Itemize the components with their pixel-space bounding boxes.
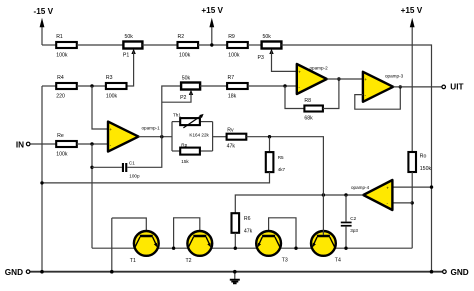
resistor R6 [232,213,253,248]
svg-text:100k: 100k [56,152,68,158]
capacitor C1 [92,137,162,179]
potentiometer P2 [180,76,200,102]
svg-text:Rp: Rp [181,142,187,147]
wire output to UIT [393,86,441,88]
wire [142,44,177,46]
wire [200,85,227,87]
svg-text:-15 V: -15 V [34,7,54,16]
svg-text:T1: T1 [130,258,136,264]
svg-text:220: 220 [56,94,65,100]
wire to opamp-1 plus input [92,86,108,129]
svg-text:3p3: 3p3 [350,228,358,233]
wire transistor rail [92,247,412,249]
svg-text:opamp-2: opamp-2 [310,65,329,70]
wire opamp-4 minus input [392,202,412,204]
node C1 tap [90,166,93,169]
-15V supply arrow [34,7,54,45]
resistor R3 [106,75,127,99]
wire opamp-3 feedback loop [355,87,401,109]
wire Ro bottom to rail [411,172,413,248]
wire [30,143,56,145]
transistor T1 [112,218,159,272]
resistor R7 [227,75,248,99]
svg-text:R6: R6 [244,216,251,222]
svg-text:R3: R3 [106,75,113,81]
transistor T2 [174,218,213,264]
wire [198,44,227,46]
svg-text:C1: C1 [129,161,135,166]
op-amp opamp-4 [351,180,392,210]
svg-text:100k: 100k [228,53,240,59]
svg-text:50k: 50k [182,76,191,82]
wire [248,44,262,46]
svg-text:+: + [386,186,389,191]
potentiometer P3 [258,34,282,61]
op-amp opamp-3 [363,72,404,102]
svg-text:47k: 47k [227,144,236,150]
transistor T3 [256,218,296,264]
GND terminal left [5,268,30,277]
UIT terminal [442,83,464,92]
wire P3 wiper to opamp-2 [272,52,297,72]
node [430,185,433,188]
wire opamp-2 output to opamp-3 [327,78,363,80]
resistor Re [56,133,77,157]
node [430,270,434,274]
svg-text:+: + [364,78,367,83]
resistor Rv [227,127,247,149]
wire opamp-1 output [139,136,173,138]
GND rail [30,271,442,273]
svg-text:T4: T4 [335,257,341,263]
node opamp-3 output [399,85,402,88]
resistor R4 [56,75,77,99]
wire top rail to right vertical down to GND [281,45,431,272]
wire [42,44,56,46]
wire opamp-4 output to R6 [235,195,363,213]
transistor T4 [311,231,341,263]
wire opamp-4 plus input [392,186,431,188]
node R6 bottom [234,247,237,250]
node C2 bottom [344,247,347,250]
resistor R2 [178,34,199,58]
resistor R9 [227,34,248,58]
op-amp opamp-2 [297,64,328,94]
svg-text:opamp-3: opamp-3 [385,73,404,78]
svg-text:Th1: Th1 [173,113,181,118]
node minus input [90,142,93,145]
wire P2 wiper [162,93,191,103]
resistor R5 [42,137,286,183]
svg-text:UIT: UIT [450,83,463,92]
svg-text:50k: 50k [263,34,272,40]
wire P2 left vertical [162,86,181,137]
svg-text:T2: T2 [186,258,192,264]
svg-text:Rv: Rv [227,127,234,133]
wire combo to Rv [213,136,227,138]
node +15V tap [210,43,213,46]
svg-text:R9: R9 [228,34,235,40]
wire [77,85,106,87]
resistor R1 [56,34,77,58]
svg-text:Re: Re [57,133,64,139]
wire R4 left leg down to GND [41,86,43,272]
svg-text:+15 V: +15 V [401,6,423,15]
svg-text:+15 V: +15 V [201,6,223,15]
svg-text:68k: 68k [304,115,313,121]
node R8 tap [283,84,286,87]
ground earth symbol [230,270,240,283]
resistor Rp [172,142,213,163]
svg-text:P1: P1 [123,53,129,59]
svg-text:100k: 100k [56,53,68,59]
svg-text:R4: R4 [57,75,64,81]
wire [248,85,297,87]
svg-text:+: + [298,71,301,76]
svg-text:GND: GND [5,268,23,277]
node [40,270,44,274]
wire minus node down to transistor rail [91,144,93,248]
svg-text:C2: C2 [350,216,356,221]
resistor R8 feedback [285,79,339,121]
svg-text:K164 22k: K164 22k [189,133,209,138]
node output/combo [160,135,163,138]
svg-text:100p: 100p [129,173,140,178]
+15V supply arrow (middle) [201,6,223,45]
node opamp-2 output [337,77,340,80]
wire [77,143,108,145]
node T2 bracket [172,247,175,250]
svg-text:47k: 47k [244,229,253,235]
resistor Ro [408,152,431,172]
svg-text:100k: 100k [106,94,118,100]
node T4 base tap [322,193,325,196]
GND terminal right [443,268,469,277]
wire [42,85,56,87]
node R5 tap [268,135,271,138]
svg-text:4k7: 4k7 [278,167,286,172]
svg-text:GND: GND [451,268,469,277]
node [110,270,114,274]
node R4/R3 junction [90,84,93,87]
svg-text:opamp-1: opamp-1 [142,126,161,131]
svg-text:R8: R8 [304,98,311,104]
wire P1 wiper down to R3 [127,52,134,87]
wire [77,44,124,46]
node T3 bracket [294,247,297,250]
svg-text:150k: 150k [420,166,432,172]
svg-text:R5: R5 [278,155,284,160]
svg-text:T3: T3 [282,257,288,263]
svg-text:opamp-4: opamp-4 [351,185,370,190]
svg-text:100k: 100k [179,53,191,59]
IN terminal [16,141,30,150]
wire Rv to T4 base [246,137,323,235]
svg-text:15k: 15k [181,159,189,164]
op-amp opamp-1 [108,122,160,152]
thermistor Th1 parallel combo [172,113,213,151]
svg-text:Ro: Ro [420,153,427,159]
node C2 tap [344,193,347,196]
svg-text:R1: R1 [56,34,63,40]
node opamp-4 minus input [411,201,414,204]
+15V supply arrow (right) [401,6,423,152]
node ground line left [40,181,43,184]
svg-text:R7: R7 [228,75,235,81]
svg-text:R2: R2 [178,34,185,40]
potentiometer P1 [123,34,142,58]
svg-text:+: + [109,128,112,133]
svg-text:P2: P2 [180,95,186,101]
svg-text:IN: IN [16,141,24,150]
svg-text:50k: 50k [125,34,134,40]
capacitor C2 [341,195,359,248]
svg-text:18k: 18k [228,94,237,100]
svg-text:P3: P3 [258,55,264,61]
